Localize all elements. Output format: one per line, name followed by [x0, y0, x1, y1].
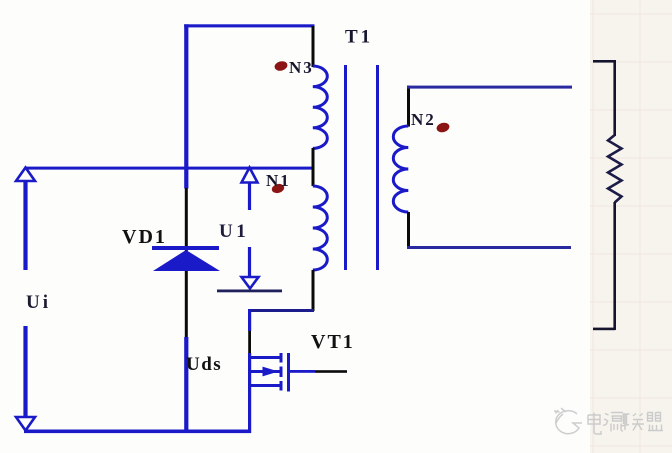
wire: secondary bottom horizontal	[407, 246, 571, 249]
polarity dot N3	[274, 60, 289, 72]
core bar left	[344, 65, 347, 270]
wire: U1 reference bar	[217, 290, 282, 293]
voltage arrow U1 (up head)	[242, 168, 258, 211]
load branch vertical lower	[613, 202, 616, 330]
wire: left vertical upper (blue)	[184, 24, 188, 188]
watermark logo	[554, 408, 582, 434]
wire: top horizontal (left loop top)	[184, 24, 314, 27]
watermark text: yuan	[603, 413, 623, 432]
wire: secondary bottom black segment	[407, 212, 410, 248]
wire: gate lead blue part	[290, 370, 315, 373]
load branch bottom stub	[593, 328, 615, 331]
transistor VT1 (MOSFET)	[249, 353, 289, 392]
svg-text:Uds: Uds	[186, 354, 222, 375]
resistor RL zigzag	[608, 135, 622, 203]
polarity dot N1	[271, 183, 285, 195]
wire: left vertical middle (black, through diode)	[185, 188, 188, 337]
winding N3	[313, 66, 328, 148]
wire: jog horizontal to MOSFET drain	[248, 309, 314, 312]
wire: black segment below N1	[312, 270, 315, 311]
transistor VT1 body arrow	[263, 367, 279, 377]
voltage arrow Ui (up head)	[16, 168, 35, 271]
wire: black drop from top wire to N3	[312, 26, 315, 67]
winding N2	[393, 126, 408, 212]
wire: jog black vertical below N1	[312, 305, 315, 311]
core bar right	[376, 65, 379, 270]
wire: bottom horizontal	[24, 430, 251, 434]
wire: black segment between N3 and junction	[312, 148, 315, 186]
load branch top stub	[593, 60, 615, 63]
svg-text:N3: N3	[289, 58, 314, 77]
watermark text: dian	[588, 413, 601, 435]
wire: secondary top black drop	[407, 86, 410, 127]
wire: secondary top horizontal	[407, 86, 572, 89]
svg-text:VD1: VD1	[122, 226, 167, 248]
wire: main horizontal input bus	[25, 167, 313, 170]
polarity dot N2	[436, 121, 451, 133]
wire: MOSFET left lead vertical (blue top)	[248, 309, 251, 331]
wire: gate lead black part	[315, 370, 347, 373]
diode VD1	[152, 246, 220, 271]
svg-text:T1: T1	[345, 27, 373, 48]
voltage arrow U1 (down head)	[242, 247, 259, 289]
svg-text:N1: N1	[266, 171, 291, 190]
svg-text:U1: U1	[219, 221, 249, 242]
watermark text: lian	[621, 414, 644, 431]
wire: MOSFET left lead vertical (black mid)	[248, 331, 251, 353]
svg-text:Ui: Ui	[26, 292, 51, 313]
wire: MOSFET left lead vertical (blue bottom)	[248, 353, 251, 433]
svg-text:VT1: VT1	[311, 331, 355, 353]
load branch vertical upper	[613, 60, 616, 136]
wire: left vertical lower (blue)	[184, 337, 188, 432]
svg-text:N2: N2	[411, 110, 436, 129]
winding N1	[313, 186, 328, 270]
watermark text: meng	[648, 413, 664, 431]
voltage arrow Ui (down head)	[16, 326, 35, 431]
